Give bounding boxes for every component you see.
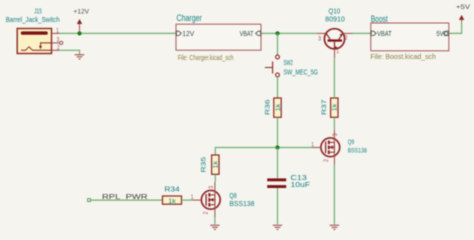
svg-text:R34: R34 bbox=[164, 185, 179, 194]
Q8 drain pin 3 bbox=[214, 182, 216, 195]
wire C13 to ground bbox=[277, 188, 279, 224]
svg-text:Q9: Q9 bbox=[348, 139, 355, 146]
svg-text:VBAT: VBAT bbox=[240, 29, 254, 38]
resistor R35 bbox=[212, 155, 219, 174]
svg-text:5VD: 5VD bbox=[436, 29, 448, 38]
svg-text:SW2: SW2 bbox=[284, 58, 294, 67]
wire SW2 to R36 bbox=[277, 77, 279, 98]
connector J15 barrel jack body bbox=[17, 29, 51, 54]
svg-text:R36: R36 bbox=[264, 99, 271, 115]
wire Q10 pin1 to R37 bbox=[333, 58, 335, 98]
svg-text:+12V: +12V bbox=[74, 9, 90, 16]
svg-text:1k: 1k bbox=[168, 198, 177, 205]
svg-text:10uF: 10uF bbox=[291, 180, 311, 189]
wire Q10 to Boost sheet bbox=[353, 32, 372, 34]
junction at +12V node bbox=[77, 31, 81, 35]
transistor Q10 bbox=[324, 29, 344, 50]
Q10 pin 2 (right) bbox=[343, 32, 353, 34]
svg-text:1k: 1k bbox=[275, 103, 282, 112]
wire R35 to Q8 drain bbox=[214, 174, 216, 182]
wire RPL_PWR to R34 bbox=[91, 199, 163, 201]
power symbol +5V bbox=[456, 4, 471, 21]
sheet pin 5VD (output) on Boost bbox=[436, 29, 448, 38]
ground under J15 pin2 bbox=[75, 55, 85, 59]
Q8 source pin 2 bbox=[214, 205, 216, 217]
wire R36 to gate node bbox=[277, 117, 279, 147]
hierarchical sheet Charger bbox=[176, 13, 261, 62]
svg-text:1k: 1k bbox=[213, 160, 220, 169]
svg-text:VBAT: VBAT bbox=[377, 29, 392, 38]
svg-text:+5V: +5V bbox=[456, 4, 471, 11]
wire +12V rail from J15 pin1 to Charger sheet bbox=[60, 32, 177, 34]
sheet pin VBAT (input) on Boost bbox=[371, 29, 392, 38]
wire R37 to Q9 drain bbox=[333, 117, 335, 130]
sheet pin 12V (input) on Charger bbox=[176, 29, 194, 38]
svg-text:File: Charger.kicad_sch: File: Charger.kicad_sch bbox=[178, 53, 234, 62]
wire VBAT from Charger to Q10 bbox=[262, 32, 318, 34]
hierarchical sheet Boost bbox=[370, 14, 448, 61]
resistor R34 bbox=[163, 196, 182, 204]
ground under Q8 bbox=[210, 225, 219, 229]
junction at gate node bbox=[275, 145, 279, 149]
svg-text:80910: 80910 bbox=[325, 14, 345, 23]
svg-text:12V: 12V bbox=[182, 29, 194, 38]
svg-text:R35: R35 bbox=[200, 157, 207, 173]
Q10 pin 1 (bottom) bbox=[334, 49, 336, 59]
J15 pin 3 no-connect circle bbox=[60, 41, 63, 44]
J15 pin 2 bbox=[52, 49, 60, 51]
svg-text:Charger: Charger bbox=[177, 13, 202, 23]
Q9 source pin 2 bbox=[333, 152, 335, 164]
wire Q8 source to ground bbox=[214, 217, 216, 224]
resistor R37 bbox=[331, 98, 338, 117]
transistor Q8 bbox=[201, 190, 220, 209]
capacitor C13 bbox=[267, 178, 286, 188]
wire VBAT node down to SW2 bbox=[277, 33, 279, 55]
wire J15 pin2 to ground bbox=[60, 50, 80, 54]
ground under Q9 bbox=[330, 225, 339, 229]
power symbol +12V bbox=[74, 9, 90, 33]
svg-text:Barrel_Jack_Switch: Barrel_Jack_Switch bbox=[6, 15, 60, 24]
switch SW2 bbox=[265, 55, 280, 77]
wire gate node to C13 bbox=[277, 148, 279, 179]
Q9 drain pin 3 bbox=[333, 130, 335, 142]
wire R34 to Q8 gate bbox=[182, 199, 193, 201]
net label RPL_PWR bbox=[88, 192, 149, 202]
junction at VBAT node bbox=[275, 31, 279, 35]
Q9 gate pin 1 bbox=[313, 147, 321, 149]
svg-text:File: Boost.kicad_sch: File: Boost.kicad_sch bbox=[370, 52, 436, 61]
resistor R36 bbox=[274, 98, 281, 117]
svg-text:RPL_PWR: RPL_PWR bbox=[102, 192, 148, 201]
Q10 pin 3 (left) bbox=[317, 32, 326, 34]
svg-text:1k: 1k bbox=[332, 103, 339, 112]
svg-text:BSS138: BSS138 bbox=[348, 148, 367, 155]
svg-text:Boost: Boost bbox=[371, 14, 388, 24]
transistor Q9 bbox=[321, 138, 340, 157]
wire Q9 source to ground bbox=[333, 165, 335, 225]
J15 pin 3 bbox=[52, 42, 60, 44]
svg-text:BSS138: BSS138 bbox=[229, 199, 254, 208]
svg-text:R37: R37 bbox=[321, 99, 328, 115]
sheet pin VBAT (output) on Charger bbox=[240, 29, 261, 38]
ground under C13 bbox=[273, 225, 282, 229]
svg-text:SW_MEC_5G: SW_MEC_5G bbox=[284, 67, 319, 76]
wire gate rail R35 to Q9 bbox=[215, 148, 313, 156]
Q8 gate pin 1 bbox=[193, 199, 202, 201]
J15 pin 1 bbox=[52, 32, 60, 34]
wire Boost 5VD to +5V bbox=[449, 21, 461, 33]
